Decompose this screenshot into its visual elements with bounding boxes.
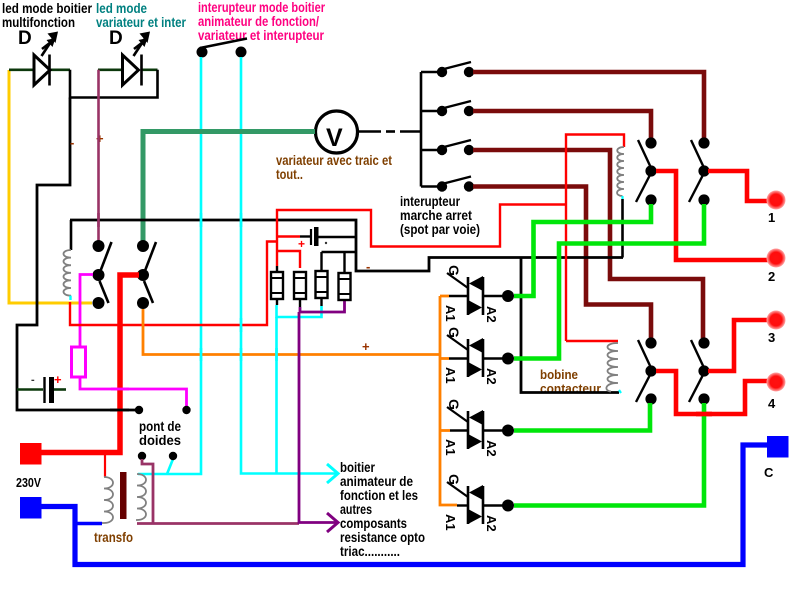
triac Q1 (443, 265, 514, 323)
wire cyan net A: S1 left pole down to transformer secondary (138, 57, 201, 474)
wire cyan net B: S1 right pole + resistor box down to boitier arrow (241, 57, 337, 474)
triac Q3 (443, 399, 514, 457)
svg-text:tout..: tout.. (276, 167, 303, 182)
svg-text:A2: A2 (484, 306, 499, 323)
svg-text:C: C (764, 465, 774, 480)
svg-text:composants: composants (340, 516, 407, 531)
svg-text:animateur de: animateur de (340, 474, 413, 489)
switch S3 (voie 2) (437, 101, 474, 116)
coil bobine contacteur (grey) (606, 343, 618, 392)
svg-text:4: 4 (768, 396, 776, 411)
svg-text:led mode boitier: led mode boitier (2, 1, 93, 16)
bobine contacteur box (black) (521, 258, 619, 393)
crossing patch: cyan over black bus and orange (201, 213, 277, 361)
wire maroon 1: S2 to upper contact col2 (473, 72, 704, 138)
svg-text:D: D (18, 28, 32, 49)
svg-text:A2: A2 (484, 368, 499, 385)
blue input square (20, 497, 42, 519)
cyan arrowhead (327, 464, 338, 483)
svg-text:-: - (366, 259, 370, 274)
wire green G3: triac Q3 to lower col1 (514, 403, 650, 431)
wire green #339966: variateur feed to relay dot B1 (143, 132, 315, 247)
svg-text:variateur avec traic et: variateur avec traic et (276, 153, 392, 168)
switch S2 (marche/arret voie 1) (437, 62, 474, 77)
wire red: contact to terminal 3 (708, 320, 768, 371)
wire red thick: relay B2 down to 230V red square (41, 275, 139, 453)
svg-text:animateur de fonction/: animateur de fonction/ (198, 14, 319, 29)
svg-text:transfo: transfo (94, 530, 133, 545)
orange rail: triac A1 feeds (440, 296, 457, 505)
resistor R4 (322, 252, 357, 301)
resistor R1 (271, 266, 283, 305)
svg-text:bobine: bobine (540, 367, 578, 382)
svg-text:A2: A2 (484, 440, 499, 457)
svg-text:A1: A1 (443, 367, 458, 384)
terminal 3 (767, 311, 786, 330)
contact bank upper col1 (636, 137, 657, 205)
svg-text:A1: A1 (443, 439, 458, 456)
blue square C (767, 436, 789, 458)
svg-text:A1: A1 (443, 305, 458, 322)
svg-text:1: 1 (768, 210, 775, 225)
svg-text:+: + (54, 372, 62, 387)
svg-text:A2: A2 (484, 515, 499, 532)
resistor R6 grey coil (left) (64, 220, 72, 300)
voltmeter V (variateur avec triac) (316, 111, 358, 153)
switch S4 (voie 3) (437, 140, 474, 155)
wire red thin net: to boitier coil and bobine coil (566, 135, 624, 342)
contact bank lower col1 (636, 337, 657, 404)
wire purple #993366: LED2 anode down to relay dot A1 (97, 70, 100, 246)
resistor R5 (magenta box) (72, 347, 86, 377)
svg-text:resistance opto: resistance opto (340, 530, 425, 545)
svg-text:fonction et les: fonction et les (340, 488, 418, 503)
terminal 4 (767, 373, 786, 392)
LED D2 (98, 28, 158, 86)
middle box: red net (top of RC block) (277, 205, 566, 267)
red feed to transformer primary (104, 455, 106, 477)
svg-text:doides: doides (139, 433, 181, 448)
contact bank lower col2 (689, 337, 710, 404)
terminal 2 (767, 249, 786, 268)
svg-text:A1: A1 (443, 514, 458, 531)
terminal 1 (767, 191, 786, 210)
svg-text:triac...........: triac........... (340, 544, 400, 559)
relay contacts K1 column B (137, 240, 156, 309)
svg-text:interupteur mode boitier: interupteur mode boitier (198, 0, 326, 15)
230V red square (20, 443, 42, 465)
wire magenta: relay A2 to resistor R5 to pont de diodes (80, 275, 93, 348)
crossing patch: purple over black bus (97, 213, 100, 227)
wire black: main bus y=220 to bobine box (70, 220, 623, 271)
svg-text:+: + (298, 237, 305, 251)
svg-text:autres: autres (340, 502, 372, 517)
relay contacts K1 column A (93, 240, 112, 309)
wire orange: relay B3 to triac A1 rail (143, 309, 440, 355)
wire maroon 4: S5 to lower contact col1 (473, 187, 651, 339)
svg-text:-: - (31, 374, 35, 386)
svg-text:2: 2 (768, 269, 775, 284)
triac Q4 (443, 474, 514, 532)
wire green G4: triac Q4 to lower col2 (514, 403, 704, 506)
svg-text:led mode: led mode (96, 1, 147, 16)
wire red: contact to terminal 4 (656, 371, 768, 414)
wire green G2: triac Q2 to upper col2 (514, 204, 704, 359)
wire blue: neutral bus to C square (41, 445, 767, 565)
wire black: V output to interrupteur bank (dashed) (358, 72, 438, 187)
svg-text:D: D (109, 28, 123, 49)
wire red: contact to terminal 1 (708, 171, 768, 201)
svg-text:multifonction: multifonction (2, 15, 75, 30)
wire red: cap junction to middle box (70, 242, 277, 326)
transformer secondary winding (136, 474, 146, 520)
coil boitier (top grey coil at x=623) (617, 147, 624, 258)
svg-text:(spot par voie): (spot par voie) (400, 222, 480, 237)
crossing patch: black over red (110, 409, 129, 412)
wire maroon993366: pont de diodes to transfo secondary bus (142, 459, 153, 524)
svg-text:boitier: boitier (340, 460, 376, 475)
wire maroon 2: S3 to upper contact col1 (473, 111, 651, 138)
pont de diodes: node dots (135, 406, 143, 414)
wire maroon 3: S4 to lower contact col2 (473, 150, 703, 338)
purple arrowhead (327, 513, 338, 532)
switch S1 (interupteur mode boitier) (197, 39, 248, 58)
svg-text:interupteur: interupteur (400, 194, 461, 209)
resistor R3 (316, 252, 328, 306)
crossing patch: magenta over red (111, 388, 129, 391)
svg-text:V: V (326, 124, 343, 152)
svg-text:variateur et interupteur: variateur et interupteur (198, 28, 325, 43)
svg-text:pont de: pont de (139, 419, 181, 434)
transformer primary winding (102, 477, 113, 523)
wire yellow: LED1 anode to relay bottom-left dot (9, 70, 92, 303)
svg-text:-: - (70, 135, 74, 150)
wire green G1: triac Q1 to upper col1 (514, 204, 651, 296)
svg-text:230V: 230V (16, 476, 42, 490)
transformer core (120, 472, 127, 519)
wire red: contact to terminal 2 (656, 171, 768, 260)
svg-text:+: + (362, 339, 370, 354)
capacitor C2 (in RC block) (277, 227, 356, 251)
red over green crossing at (704,414) (696, 412, 712, 417)
capacitor C1 (left, polarized) (17, 372, 66, 403)
wire purple: resistor box bottom to composants arrow (300, 301, 345, 312)
LED D1 (9, 28, 70, 86)
wire black: LED cathode bus and jog down-left (70, 70, 158, 98)
svg-text:3: 3 (768, 330, 775, 345)
svg-text:marche arret: marche arret (400, 208, 472, 223)
contact bank upper col2 (689, 137, 710, 205)
switch S5 (voie 4) (437, 177, 474, 192)
resistor R2 (294, 272, 306, 307)
triac Q2 (443, 327, 514, 385)
